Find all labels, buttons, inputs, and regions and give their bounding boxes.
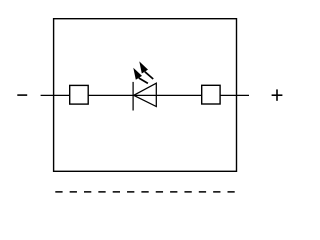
clamp contact left bbox=[70, 85, 89, 104]
clamp contact right bbox=[202, 85, 220, 104]
DIN rail dashed line bbox=[55, 191, 234, 193]
LED D1 triangle bbox=[134, 83, 157, 106]
terminal block enclosure outline bbox=[54, 19, 237, 172]
wire bbox=[41, 94, 249, 96]
LED D1 cathode bar bbox=[132, 82, 134, 111]
LED light arrow 1 bbox=[133, 68, 148, 84]
minus terminal label bbox=[17, 94, 27, 96]
plus terminal label bbox=[272, 89, 283, 100]
LED light arrow 2 bbox=[139, 61, 153, 79]
